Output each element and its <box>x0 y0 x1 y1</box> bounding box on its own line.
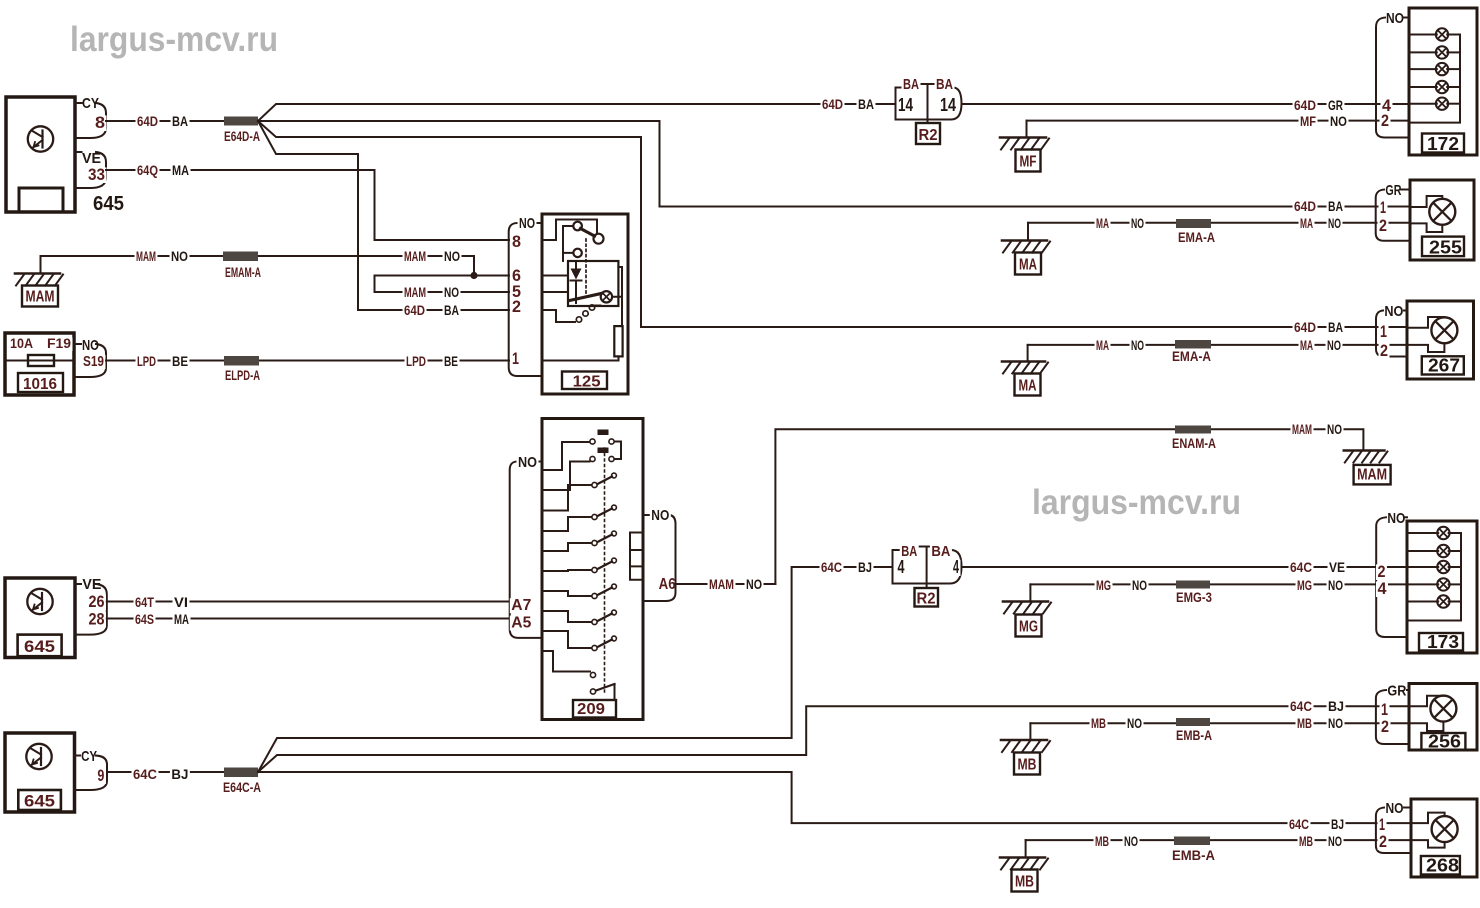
svg-text:CY: CY <box>82 95 99 112</box>
svg-text:MB: MB <box>1015 874 1034 891</box>
svg-text:MA: MA <box>1300 215 1313 231</box>
svg-text:MAM: MAM <box>709 576 734 592</box>
svg-text:BA: BA <box>444 302 459 318</box>
svg-text:EMAM-A: EMAM-A <box>225 264 261 280</box>
svg-text:GR: GR <box>1387 683 1406 700</box>
svg-text:NO: NO <box>1328 715 1343 731</box>
svg-text:2: 2 <box>512 297 521 316</box>
svg-text:268: 268 <box>1426 856 1459 876</box>
svg-text:BA: BA <box>1328 319 1343 335</box>
svg-text:64C: 64C <box>1289 816 1309 832</box>
svg-text:NO: NO <box>82 337 99 354</box>
svg-text:A5: A5 <box>511 615 531 632</box>
svg-text:EMB-A: EMB-A <box>1176 727 1212 743</box>
svg-text:28: 28 <box>89 610 105 629</box>
svg-text:9: 9 <box>97 766 104 785</box>
svg-text:64D: 64D <box>137 113 158 129</box>
svg-text:125: 125 <box>573 374 601 391</box>
svg-text:MG: MG <box>1096 577 1111 593</box>
svg-text:largus-mcv.ru: largus-mcv.ru <box>1032 483 1241 522</box>
svg-text:NO: NO <box>746 576 762 592</box>
svg-text:ELPD-A: ELPD-A <box>225 367 260 383</box>
svg-text:largus-mcv.ru: largus-mcv.ru <box>70 20 278 59</box>
svg-text:NO: NO <box>1384 303 1403 320</box>
svg-text:26: 26 <box>89 592 105 611</box>
svg-text:64D: 64D <box>1294 319 1316 335</box>
svg-text:NO: NO <box>1124 833 1138 849</box>
svg-text:EMB-A: EMB-A <box>1172 847 1215 863</box>
svg-text:2: 2 <box>1379 832 1387 851</box>
svg-text:NO: NO <box>1327 337 1341 353</box>
svg-text:CY: CY <box>81 748 97 765</box>
svg-text:BJ: BJ <box>1328 698 1344 714</box>
svg-text:LPD: LPD <box>137 353 156 369</box>
svg-text:VE: VE <box>1329 559 1345 575</box>
svg-text:64C: 64C <box>821 559 842 575</box>
svg-text:NO: NO <box>1386 800 1404 817</box>
svg-text:NO: NO <box>1132 577 1147 593</box>
svg-text:BE: BE <box>444 353 458 369</box>
svg-text:A7: A7 <box>511 597 531 614</box>
svg-text:BA: BA <box>903 76 919 93</box>
svg-text:BJ: BJ <box>858 559 872 575</box>
svg-text:NO: NO <box>1387 510 1405 527</box>
svg-text:NO: NO <box>519 215 535 232</box>
svg-text:MAM: MAM <box>1357 466 1387 483</box>
svg-text:645: 645 <box>24 637 55 656</box>
svg-text:MA: MA <box>1300 337 1313 353</box>
svg-text:10A: 10A <box>10 335 33 351</box>
svg-text:MAM: MAM <box>404 248 426 264</box>
svg-text:MA: MA <box>1096 215 1109 231</box>
svg-text:255: 255 <box>1429 238 1462 258</box>
svg-text:64S: 64S <box>135 611 154 627</box>
svg-text:MF: MF <box>1300 113 1316 129</box>
svg-text:BA: BA <box>931 543 950 560</box>
svg-text:NO: NO <box>1328 215 1341 231</box>
svg-text:MB: MB <box>1018 757 1037 774</box>
svg-text:NO: NO <box>651 507 669 524</box>
svg-text:33: 33 <box>88 165 105 184</box>
svg-text:MG: MG <box>1019 619 1038 636</box>
svg-text:NO: NO <box>1386 10 1404 27</box>
svg-text:267: 267 <box>1428 356 1460 376</box>
svg-text:BE: BE <box>172 353 188 369</box>
svg-text:ENAM-A: ENAM-A <box>1172 435 1216 451</box>
svg-text:LPD: LPD <box>406 353 426 369</box>
svg-text:NO: NO <box>1330 113 1347 129</box>
svg-text:2: 2 <box>1380 341 1388 360</box>
svg-text:BA: BA <box>1328 198 1343 214</box>
svg-text:MA: MA <box>174 611 189 627</box>
svg-text:BJ: BJ <box>171 766 188 782</box>
svg-text:NO: NO <box>518 454 537 471</box>
svg-text:E64D-A: E64D-A <box>224 128 260 144</box>
svg-text:MB: MB <box>1091 715 1106 731</box>
svg-text:1: 1 <box>512 349 519 368</box>
svg-text:64D: 64D <box>822 96 843 112</box>
svg-text:64D: 64D <box>1294 97 1316 113</box>
svg-text:64C: 64C <box>1290 559 1312 575</box>
svg-text:A6: A6 <box>659 576 676 593</box>
svg-text:MB: MB <box>1297 715 1312 731</box>
svg-text:EMA-A: EMA-A <box>1172 348 1211 364</box>
svg-text:MA: MA <box>1019 378 1037 395</box>
svg-text:64Q: 64Q <box>137 162 158 178</box>
svg-text:GR: GR <box>1385 182 1401 199</box>
svg-text:MAM: MAM <box>1292 421 1312 437</box>
svg-text:645: 645 <box>93 193 124 215</box>
svg-text:MAM: MAM <box>26 289 55 306</box>
svg-text:VI: VI <box>174 594 188 610</box>
svg-text:MF: MF <box>1020 154 1037 171</box>
svg-text:BA: BA <box>936 76 953 93</box>
svg-text:172: 172 <box>1427 134 1459 154</box>
svg-text:NO: NO <box>1327 421 1342 437</box>
svg-text:64T: 64T <box>135 594 154 610</box>
svg-text:NO: NO <box>1131 337 1144 353</box>
svg-text:64D: 64D <box>404 302 425 318</box>
svg-text:64D: 64D <box>1294 198 1316 214</box>
svg-text:209: 209 <box>577 701 605 718</box>
svg-text:4: 4 <box>953 557 959 577</box>
svg-text:NO: NO <box>1127 715 1142 731</box>
svg-text:NO: NO <box>444 284 459 300</box>
svg-text:BJ: BJ <box>1331 816 1344 832</box>
svg-text:4: 4 <box>1378 579 1388 598</box>
svg-text:MG: MG <box>1297 577 1312 593</box>
svg-text:NO: NO <box>171 248 188 264</box>
svg-text:1: 1 <box>1380 198 1386 217</box>
svg-text:14: 14 <box>940 95 956 115</box>
svg-text:EMG-3: EMG-3 <box>1176 589 1212 605</box>
svg-text:NO: NO <box>1328 577 1343 593</box>
svg-text:2: 2 <box>1379 216 1387 235</box>
svg-text:BA: BA <box>858 96 874 112</box>
svg-text:R2: R2 <box>917 591 936 608</box>
svg-text:NO: NO <box>444 248 460 264</box>
svg-text:EMA-A: EMA-A <box>1178 229 1215 245</box>
svg-text:NO: NO <box>1328 833 1342 849</box>
svg-text:GR: GR <box>1328 97 1343 113</box>
svg-text:MA: MA <box>1096 337 1109 353</box>
svg-text:173: 173 <box>1427 632 1459 652</box>
svg-text:2: 2 <box>1381 111 1389 130</box>
svg-text:MB: MB <box>1299 833 1313 849</box>
svg-text:VE: VE <box>82 576 101 593</box>
svg-text:64C: 64C <box>1290 698 1312 714</box>
svg-text:MA: MA <box>172 162 189 178</box>
svg-text:4: 4 <box>898 557 905 577</box>
svg-text:BA: BA <box>172 113 188 129</box>
svg-text:NO: NO <box>1131 215 1144 231</box>
svg-text:256: 256 <box>1428 732 1461 752</box>
svg-text:8: 8 <box>512 232 521 251</box>
svg-text:64C: 64C <box>133 766 157 782</box>
svg-text:S19: S19 <box>83 353 104 370</box>
svg-text:2: 2 <box>1381 717 1389 736</box>
svg-text:MAM: MAM <box>136 248 156 264</box>
svg-text:MAM: MAM <box>404 284 426 300</box>
svg-text:14: 14 <box>898 95 913 115</box>
svg-text:1: 1 <box>1380 322 1387 341</box>
svg-text:8: 8 <box>95 113 105 132</box>
svg-text:MA: MA <box>1019 257 1037 274</box>
svg-text:E64C-A: E64C-A <box>223 779 261 795</box>
svg-text:F19: F19 <box>47 335 71 351</box>
svg-text:MB: MB <box>1095 833 1109 849</box>
svg-text:R2: R2 <box>919 127 938 144</box>
svg-text:645: 645 <box>24 792 55 811</box>
svg-text:1016: 1016 <box>23 376 57 393</box>
